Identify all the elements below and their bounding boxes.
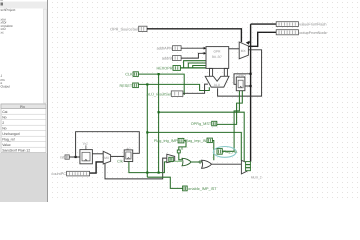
wire CLK to FRQ mux xyxy=(159,112,245,161)
svg-text:xc: xc xyxy=(1,30,5,34)
bus marker outputFromNode xyxy=(276,30,327,35)
I/O marker ALU_resultSel xyxy=(147,91,183,97)
selection ellipse around Flag_rst xyxy=(213,147,236,158)
wire flag mux output to OR1 xyxy=(175,160,182,162)
wire rst to PC xyxy=(69,156,80,158)
properties table xyxy=(1,104,46,153)
svg-text:Output: Output xyxy=(1,85,11,89)
wire HEXOPR bus into GPR xyxy=(181,67,207,69)
wire Flag_imp down to gate G2 xyxy=(212,141,213,161)
svg-text:Pin: Pin xyxy=(20,105,25,109)
gate G2 xyxy=(202,160,212,168)
wire AC clock green xyxy=(129,161,167,172)
svg-text:Value: Value xyxy=(2,143,11,147)
svg-text:Cat: Cat xyxy=(2,110,7,114)
wire to bus marker valueFromFlash xyxy=(251,23,277,25)
wire RESET main xyxy=(138,84,209,90)
svg-text:Unchanged: Unchanged xyxy=(2,132,19,136)
node junction on PC input xyxy=(75,156,77,158)
mux MX1 xyxy=(239,42,248,59)
ALU U1 xyxy=(205,76,229,87)
svg-text:ALU: ALU xyxy=(214,83,221,87)
wire addrB to GPR xyxy=(181,53,204,58)
svg-text:Flag_imp_IN: Flag_imp_IN xyxy=(185,139,207,143)
svg-text:Flag_rst: Flag_rst xyxy=(223,150,238,154)
svg-text:CLK: CLK xyxy=(125,73,133,77)
I/O marker Flag_imp xyxy=(185,138,213,143)
svg-text:Flag_ref: Flag_ref xyxy=(2,137,14,141)
wire AC feedback loop xyxy=(76,132,140,157)
canvas background with grid dots xyxy=(48,0,360,202)
I/O marker Flag_trig_IMP xyxy=(154,138,184,143)
wire addrAPN to GPR xyxy=(181,47,204,49)
I/O marker RESET xyxy=(120,83,139,88)
svg-text:R: R xyxy=(181,147,184,151)
node CLK junction xyxy=(158,73,160,75)
gate OR1 xyxy=(182,158,191,166)
svg-text:HEXOPR: HEXOPR xyxy=(156,66,172,70)
wire CLK column branch xyxy=(158,74,160,173)
svg-text:GPR: GPR xyxy=(214,49,222,53)
I/O marker OPRg_MST xyxy=(191,121,217,126)
wire select into MX1 xyxy=(249,41,250,43)
svg-text:ALU_resultSel: ALU_resultSel xyxy=(147,92,171,96)
register GPRO xyxy=(236,73,246,90)
svg-text:OPR_SourceSel: OPR_SourceSel xyxy=(110,27,138,31)
svg-text:R0..R7: R0..R7 xyxy=(212,55,222,59)
left panel background xyxy=(0,0,48,202)
wire GPR output to mux MX1 xyxy=(229,48,240,50)
node CLK stub junction xyxy=(158,111,160,113)
bus marker valueFromFlash xyxy=(276,22,326,27)
I/O marker OPR_SourceSel xyxy=(110,26,147,31)
wire GPRO output xyxy=(245,85,251,87)
wire R tap to OR1 upper input xyxy=(179,153,182,160)
wire CLK main xyxy=(138,74,184,95)
svg-text:PC: PC xyxy=(83,142,88,146)
mux MUX_2 xyxy=(241,160,261,179)
I/O marker enable_IMP_IST xyxy=(183,186,218,191)
svg-text:countPC: countPC xyxy=(51,172,66,176)
mux MX3 flag mux xyxy=(167,154,175,162)
register AC xyxy=(117,147,132,163)
wire HEXOPR fanout xyxy=(184,61,206,68)
svg-text:MUX_2: MUX_2 xyxy=(251,175,262,179)
svg-text:No: No xyxy=(2,126,6,130)
wire MX2 output to AC xyxy=(111,155,125,157)
I/O marker addrB xyxy=(162,56,181,61)
register file GPR xyxy=(206,47,229,77)
svg-text:2: 2 xyxy=(2,121,4,125)
svg-text:enable_IMP_IST: enable_IMP_IST xyxy=(188,187,217,191)
svg-text:SansSerif Plain 12: SansSerif Plain 12 xyxy=(2,148,30,152)
wire MX2 bottom to flag mux (black) xyxy=(105,158,167,179)
svg-text:No: No xyxy=(2,115,6,119)
wire enable to RESET column xyxy=(147,177,182,188)
wire PC output to mux MX2 xyxy=(92,153,103,155)
register PC xyxy=(80,142,93,164)
I/O marker countPC xyxy=(51,171,89,176)
svg-text:valueFromFlash: valueFromFlash xyxy=(299,23,326,27)
wire OPR_SourceSel to mux MX1 xyxy=(147,29,241,43)
wire RESET column branch xyxy=(146,84,148,177)
node junction GPRO output xyxy=(250,85,252,87)
node junction RESET column xyxy=(146,172,148,174)
svg-text:addrAPN: addrAPN xyxy=(157,47,173,51)
mux MX2 xyxy=(103,151,110,164)
svg-text:addrB: addrB xyxy=(162,57,173,61)
node junction AC clk / CLK column xyxy=(158,172,160,174)
wire G2 to MUX_2 xyxy=(211,163,241,165)
svg-text:outupFromNode: outupFromNode xyxy=(299,31,326,35)
pin arrow MX1 select xyxy=(246,41,250,45)
wire GPRO input loop xyxy=(234,74,251,85)
I/O marker addrAPN xyxy=(157,46,182,51)
wire ALU result loop to MX1 xyxy=(218,50,262,96)
pin arrow GPR input A xyxy=(204,47,207,50)
I/O marker HEXOPR xyxy=(156,66,180,71)
I/O marker CLK xyxy=(125,72,138,77)
wire GPRO green pin B to OPRg marker xyxy=(217,91,243,125)
wire countPC to mux MX2 xyxy=(90,162,104,173)
bus tap on flag mux xyxy=(169,157,174,161)
node RESET junction xyxy=(146,83,148,85)
node RESET stub junction xyxy=(146,131,148,133)
pin arrow GPR input B xyxy=(204,52,207,55)
bus tap R above flag mux xyxy=(177,147,183,153)
I/O marker Flag_rst xyxy=(217,149,238,155)
wire GPRO green pin A to Flag_rst xyxy=(222,91,239,152)
left panel tree text xyxy=(1,0,16,89)
svg-text:schProject: schProject xyxy=(1,8,16,12)
wire Flag_trig to R tap xyxy=(179,141,186,150)
svg-text:Flag_trig_IMP: Flag_trig_IMP xyxy=(154,139,178,143)
wire long vertical to MUX_2 xyxy=(250,24,252,162)
svg-text:RESET: RESET xyxy=(120,84,133,88)
svg-text:Clk: Clk xyxy=(117,159,123,163)
wire MX1 output to bus marker outputFromNode xyxy=(248,32,276,46)
svg-text:OPRg_MST: OPRg_MST xyxy=(191,122,212,126)
I/O marker rst xyxy=(60,155,69,160)
wire OR1 to G2 bubble xyxy=(191,161,199,163)
node junction on vertical at GPRO top xyxy=(250,73,252,75)
wire RESET stub to MUX_2 top xyxy=(147,132,241,160)
node bubble G2 input xyxy=(199,161,201,163)
wire ALU_resultSel to ALU xyxy=(183,84,208,93)
